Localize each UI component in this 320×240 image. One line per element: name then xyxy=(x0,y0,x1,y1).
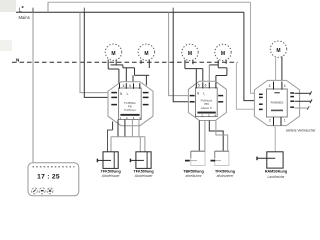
label E3 xyxy=(183,170,204,179)
wire feed E5 with terminal xyxy=(257,157,275,161)
svg-text:Abcdehauer: Abcdehauer xyxy=(134,174,154,178)
wire mesh group1 v to pin1 xyxy=(118,69,120,88)
U2 top pin labels xyxy=(198,84,207,88)
U2 left terminal bar lower xyxy=(190,101,195,103)
svg-text:above 5: above 5 xyxy=(201,106,212,110)
wire mesh group2 v pin2 xyxy=(202,69,204,83)
svg-text:L: L xyxy=(127,92,129,96)
svg-text:Landheizlar: Landheizlar xyxy=(267,175,285,179)
wire mesh group1 v1 xyxy=(122,65,124,68)
wire M5 stub right xyxy=(281,57,283,82)
wire top link to U3 (light) xyxy=(251,2,260,93)
junction tick x=84.3 xyxy=(83,8,85,13)
wire drop to E2 right xyxy=(144,137,146,152)
U3 left terminal bars xyxy=(259,94,263,109)
heater E4 left stub xyxy=(214,151,216,158)
svg-text:6: 6 xyxy=(205,84,207,88)
wire U3 out 3 xyxy=(295,107,309,109)
wire U3 out 1 end tick xyxy=(310,91,312,95)
heater E3 top edge xyxy=(191,150,205,152)
svg-text:arbeitszimr: arbeitszimr xyxy=(185,174,202,178)
svg-text:RAMSES: RAMSES xyxy=(271,100,284,104)
svg-text:weitere Verbraucher: weitere Verbraucher xyxy=(286,129,316,133)
U1 bottom pin a xyxy=(112,122,114,131)
U2 bottom pin b drop xyxy=(204,121,206,152)
heater E3 body (light) xyxy=(191,151,205,165)
svg-text:afsdrunerer: afsdrunerer xyxy=(217,174,235,178)
heater E4 top edge xyxy=(215,150,229,152)
heater E2 inner line xyxy=(146,152,148,169)
heater E4 body (light) xyxy=(215,151,229,165)
U1 right terminal bar lower xyxy=(143,104,149,106)
svg-text:TFK500ung: TFK500ung xyxy=(134,170,154,174)
wire N bus dashed (y=62.3) xyxy=(12,61,238,63)
heater E1 body xyxy=(103,152,118,169)
wire mesh group2 v right xyxy=(226,68,228,76)
svg-text:4: 4 xyxy=(284,84,286,88)
U1 bottom pin labels xyxy=(120,116,141,120)
label E5 xyxy=(265,170,287,179)
svg-text:M: M xyxy=(276,48,280,54)
svg-text:17 : 25: 17 : 25 xyxy=(37,174,60,181)
U1 bottom pin d xyxy=(131,120,133,137)
U1 terminal strip bar xyxy=(120,114,139,116)
svg-text:TFK500ung: TFK500ung xyxy=(215,170,235,174)
svg-text:TBR500ung: TBR500ung xyxy=(183,170,204,174)
svg-text:6: 6 xyxy=(129,84,131,88)
heater E5 body xyxy=(267,152,283,168)
wire mesh group2 h3 xyxy=(218,67,227,69)
wire feed E4 xyxy=(215,160,221,162)
wire to U1 pin lower (dark) xyxy=(84,12,111,97)
U2 bottom pin c jog xyxy=(209,121,223,152)
U3 top mark xyxy=(274,92,279,93)
wire mesh group1 v to pin2 xyxy=(125,68,127,88)
wire L bus (y=12.2) xyxy=(16,11,244,13)
clock button 3 xyxy=(47,188,53,194)
U3 bottom pin 2 xyxy=(280,117,282,126)
actuator M5 (dashed circle) xyxy=(270,41,286,57)
U2 top pin 3 xyxy=(208,82,210,88)
controller U1 housing (octagon) xyxy=(108,82,153,126)
U1 top pin labels xyxy=(123,84,132,88)
clock button 1 xyxy=(32,188,38,194)
wire feed E1 with terminal xyxy=(97,159,111,163)
U2 terminal labels N L xyxy=(197,92,205,96)
U2 top pin 4 xyxy=(215,82,217,88)
wire mesh group1 v right xyxy=(145,75,147,85)
wire mesh group1 h0 xyxy=(108,68,119,70)
heater E3 left stub xyxy=(190,151,192,158)
scan artifact top-left xyxy=(0,0,16,12)
wire M4 stub left xyxy=(217,60,219,68)
wire M2 stub left xyxy=(140,60,142,64)
U3 bottom pin labels xyxy=(269,118,286,122)
controller U2 terminal block xyxy=(196,88,218,117)
svg-text:1: 1 xyxy=(284,118,286,122)
U2 left terminal bar upper xyxy=(190,95,195,97)
U2 bottom pin a drop xyxy=(198,121,200,152)
wire mesh group2 h1 xyxy=(185,68,203,70)
label E4 xyxy=(215,170,235,179)
actuator M1 (dashed circle) xyxy=(105,44,121,60)
wire mesh group2 v pin4 xyxy=(215,76,217,83)
U2 bottom pin labels xyxy=(195,113,216,117)
U3 right terminal bars xyxy=(290,93,294,107)
controller U3 housing (octagon) xyxy=(254,80,299,125)
svg-text:M: M xyxy=(221,51,225,57)
junction tick x=33 xyxy=(32,8,34,13)
junction tick x=173.2 xyxy=(172,8,174,13)
wire mesh group2 v pin3 xyxy=(208,65,210,82)
wire U3 drop to E5 xyxy=(274,126,276,159)
U1 type text xyxy=(124,101,137,112)
actuator M4 (dashed circle) xyxy=(215,44,231,60)
clock panel body xyxy=(28,163,79,196)
svg-text:Abcdehauer: Abcdehauer xyxy=(101,174,121,178)
actuator M2 (dashed circle) xyxy=(138,44,154,60)
scan artifact left xyxy=(0,40,12,51)
wire mesh group2 h2 xyxy=(209,64,218,66)
wire mesh group1 h1 xyxy=(111,64,123,66)
svg-text:L: L xyxy=(203,92,205,96)
wire U3 out 3 end tick xyxy=(307,106,309,110)
wire M1 stub left xyxy=(107,60,109,69)
U3 lower mark xyxy=(271,110,283,112)
wire mesh group1 v to pin3 xyxy=(132,75,134,88)
wire mesh group1 v2 xyxy=(134,68,136,76)
U1 right terminal bar mid xyxy=(143,96,149,98)
controller U2 housing (octagon) xyxy=(188,81,226,120)
wire feed E3 terminal bar xyxy=(185,160,190,162)
wire drop to E1 xyxy=(110,137,112,152)
U1 terminal labels N L xyxy=(120,92,129,96)
clock button 2 xyxy=(39,188,45,194)
wire top link (y=2.2) xyxy=(48,1,251,3)
svg-text:3: 3 xyxy=(269,84,271,88)
U1 bottom pin b xyxy=(117,120,119,137)
svg-text:M: M xyxy=(188,51,192,57)
U1 top pin 2 xyxy=(125,83,127,89)
U1 bottom pin c xyxy=(124,120,126,137)
svg-text:M: M xyxy=(111,51,115,57)
U3 top pin 2 xyxy=(281,82,283,90)
wire L bus end to U3 (dark) xyxy=(244,12,259,100)
wire feed E2 with terminal xyxy=(130,159,144,163)
svg-text:TFK500ung: TFK500ung xyxy=(101,170,121,174)
wire mesh group1 h3 xyxy=(135,74,150,76)
actuator M3 (dashed circle) xyxy=(182,44,198,60)
U1 bottom pin e xyxy=(138,120,140,137)
label E2 xyxy=(134,170,154,179)
wire M1 stub right xyxy=(115,60,117,65)
wire U3 out 1 xyxy=(295,92,311,94)
U1 left terminal bar mid xyxy=(111,96,117,98)
U2 right terminal bar lower xyxy=(218,101,223,103)
U1 top pin 3 xyxy=(133,83,135,89)
wire M5 stub left xyxy=(275,57,277,82)
wire mesh group2 h4 xyxy=(216,75,227,77)
svg-text:5.0/5mm: 5.0/5mm xyxy=(124,108,136,112)
wire mesh group2 v pin1 xyxy=(195,69,197,83)
U1 left terminal bar lower xyxy=(111,104,117,106)
wire feed E3 xyxy=(190,160,197,162)
U1 right terminal bar upper xyxy=(143,92,149,94)
wire M3 stub right xyxy=(192,60,194,64)
U2 terminal strip bar xyxy=(197,112,215,114)
svg-text:2: 2 xyxy=(269,118,271,122)
node L (phase label) xyxy=(19,6,24,13)
U2 type text xyxy=(201,99,213,110)
controller U3 terminal block xyxy=(267,89,288,117)
controller U1 terminal block xyxy=(119,88,142,120)
wire U3 out 2 xyxy=(295,100,312,102)
U1 top pin 4 xyxy=(139,83,141,89)
U3 top pin 1 xyxy=(273,82,275,90)
heater E1 inner line xyxy=(113,152,115,169)
heater E2 body xyxy=(136,152,151,169)
wire M3 stub left xyxy=(184,60,186,69)
wire bus below U1 xyxy=(111,136,145,138)
U1 top pin 1 xyxy=(119,83,121,89)
wire mesh group1 h2 xyxy=(123,67,135,69)
svg-text:Mains: Mains xyxy=(19,15,30,20)
svg-text:5: 5 xyxy=(198,84,200,88)
wire drop to clock (x=33) xyxy=(32,12,34,163)
U2 right terminal bar upper xyxy=(218,95,223,97)
wire to U2 pin upper (light) xyxy=(169,12,190,95)
wire U3 out 2 end tick xyxy=(310,99,312,103)
svg-text:RAMS0Kung: RAMS0Kung xyxy=(265,170,287,174)
U3 top pin labels xyxy=(269,84,286,88)
U2 top pin 1 xyxy=(195,82,197,88)
wire U1 jog to heater E1 xyxy=(108,130,113,152)
wire drop to E2 left xyxy=(139,137,141,152)
svg-text:M: M xyxy=(144,51,148,57)
wire to U2 pin lower (dark) xyxy=(173,12,189,102)
clock icon row xyxy=(33,166,75,168)
wire M2 stub right xyxy=(148,60,150,68)
U2 top pin 2 xyxy=(202,82,204,88)
label E1 xyxy=(101,170,121,179)
wire stub x=48 xyxy=(47,2,49,12)
U1 left terminal bar upper xyxy=(111,92,117,94)
U2 bottom pin d jog xyxy=(216,121,228,157)
U3 bottom pin 1 xyxy=(273,117,275,126)
wire to U1 pin upper (light) xyxy=(80,12,111,92)
wire M4 stub right xyxy=(225,60,227,64)
wire N to U3 (light) xyxy=(236,62,258,109)
svg-text:5: 5 xyxy=(123,84,125,88)
wire feed E4 terminal bar xyxy=(211,160,216,162)
